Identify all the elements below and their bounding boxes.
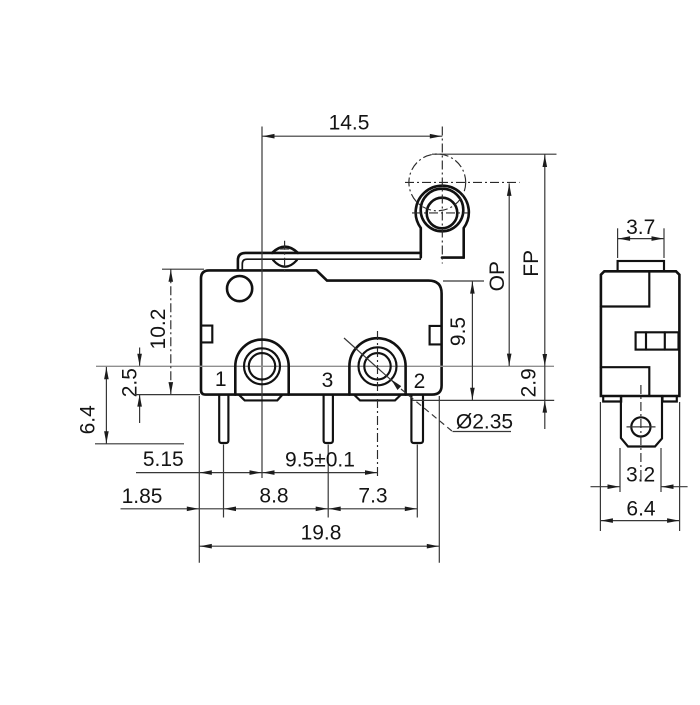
body bottom extension left [134,394,200,396]
svg-text:19.8: 19.8 [301,522,342,545]
roller bracket [416,186,469,258]
svg-text:14.5: 14.5 [329,112,370,135]
svg-text:1.85: 1.85 [122,485,163,508]
free position roller (phantom circle) [409,154,466,211]
svg-text:6.4: 6.4 [626,498,656,521]
dim 2.9 and FP line [518,155,548,430]
dim 3.7 [618,216,664,258]
switch body outline [201,270,442,394]
dim 6.4 side [600,402,679,531]
label 1 [215,368,227,391]
svg-text:8.8: 8.8 [259,485,288,508]
svg-text:10.2: 10.2 [147,309,170,350]
right side tab [430,326,441,345]
side view body [601,271,680,396]
dim row 1.85 / 8.8 / 7.3 [121,485,418,512]
roller center lines [412,127,468,264]
dim 2.5 [118,348,142,424]
hole 1 center line / extension [261,250,263,478]
svg-text:3: 3 [322,369,334,392]
OP extension / phantom center line [405,181,520,183]
roller [421,189,464,232]
leader for hole diameter [344,338,513,434]
body left extension line [198,396,200,563]
left side tab [202,326,213,343]
svg-text:1: 1 [215,368,227,391]
flange bottom extension right [412,399,554,401]
svg-text:Ø2.35: Ø2.35 [456,411,513,434]
svg-text:6.4: 6.4 [76,405,99,435]
pin 1 extension [223,445,225,518]
hole center axis line [96,365,554,367]
terminal pin 3 [324,396,333,444]
terminal pin 2 [411,396,423,444]
side view plunger button [618,261,664,271]
pin 2 extension [416,445,418,518]
svg-text:7.3: 7.3 [358,485,387,508]
dimple center line [280,241,289,273]
body right extension line [438,396,440,563]
svg-text:5.15: 5.15 [143,448,184,471]
side view tab box [636,332,679,349]
side view base flange right [663,396,677,402]
svg-text:OP: OP [486,261,509,291]
dim 9.5 right [443,281,484,400]
pin 3 extension [327,445,329,518]
svg-text:2.5: 2.5 [118,368,141,397]
svg-text:2: 2 [414,370,426,393]
svg-text:3.2: 3.2 [626,464,655,487]
svg-text:3.7: 3.7 [626,216,655,239]
pivot hole [227,276,252,301]
lever arm [238,253,421,270]
dim 6.4 left [76,367,184,444]
svg-text:FP: FP [520,250,543,277]
side view terminal [621,396,662,447]
OP dim [486,183,512,366]
svg-text:9.5: 9.5 [447,317,470,346]
dim 3.2 [591,448,688,492]
terminal pin 1 [219,396,228,444]
mounting hole 1 boss [235,340,288,401]
hole 2 center line [377,331,379,478]
side view internal upper step [601,271,649,306]
mounting hole 2 boss [349,338,405,400]
side view base flange left [603,396,621,402]
dim 10.2 [147,269,204,394]
dim 19.8 [199,522,439,549]
svg-text:9.5±0.1: 9.5±0.1 [285,449,355,472]
side view internal lower step [601,367,649,396]
label 2 [414,370,426,393]
dim 14.5 [262,112,442,251]
lever dimple [272,247,298,267]
side view terminal hole [627,385,656,481]
label 3 [322,369,334,392]
FP extension line [432,153,557,155]
svg-text:2.9: 2.9 [518,368,541,397]
dim row 5.15 and 9.5+-0.1 [136,448,378,475]
